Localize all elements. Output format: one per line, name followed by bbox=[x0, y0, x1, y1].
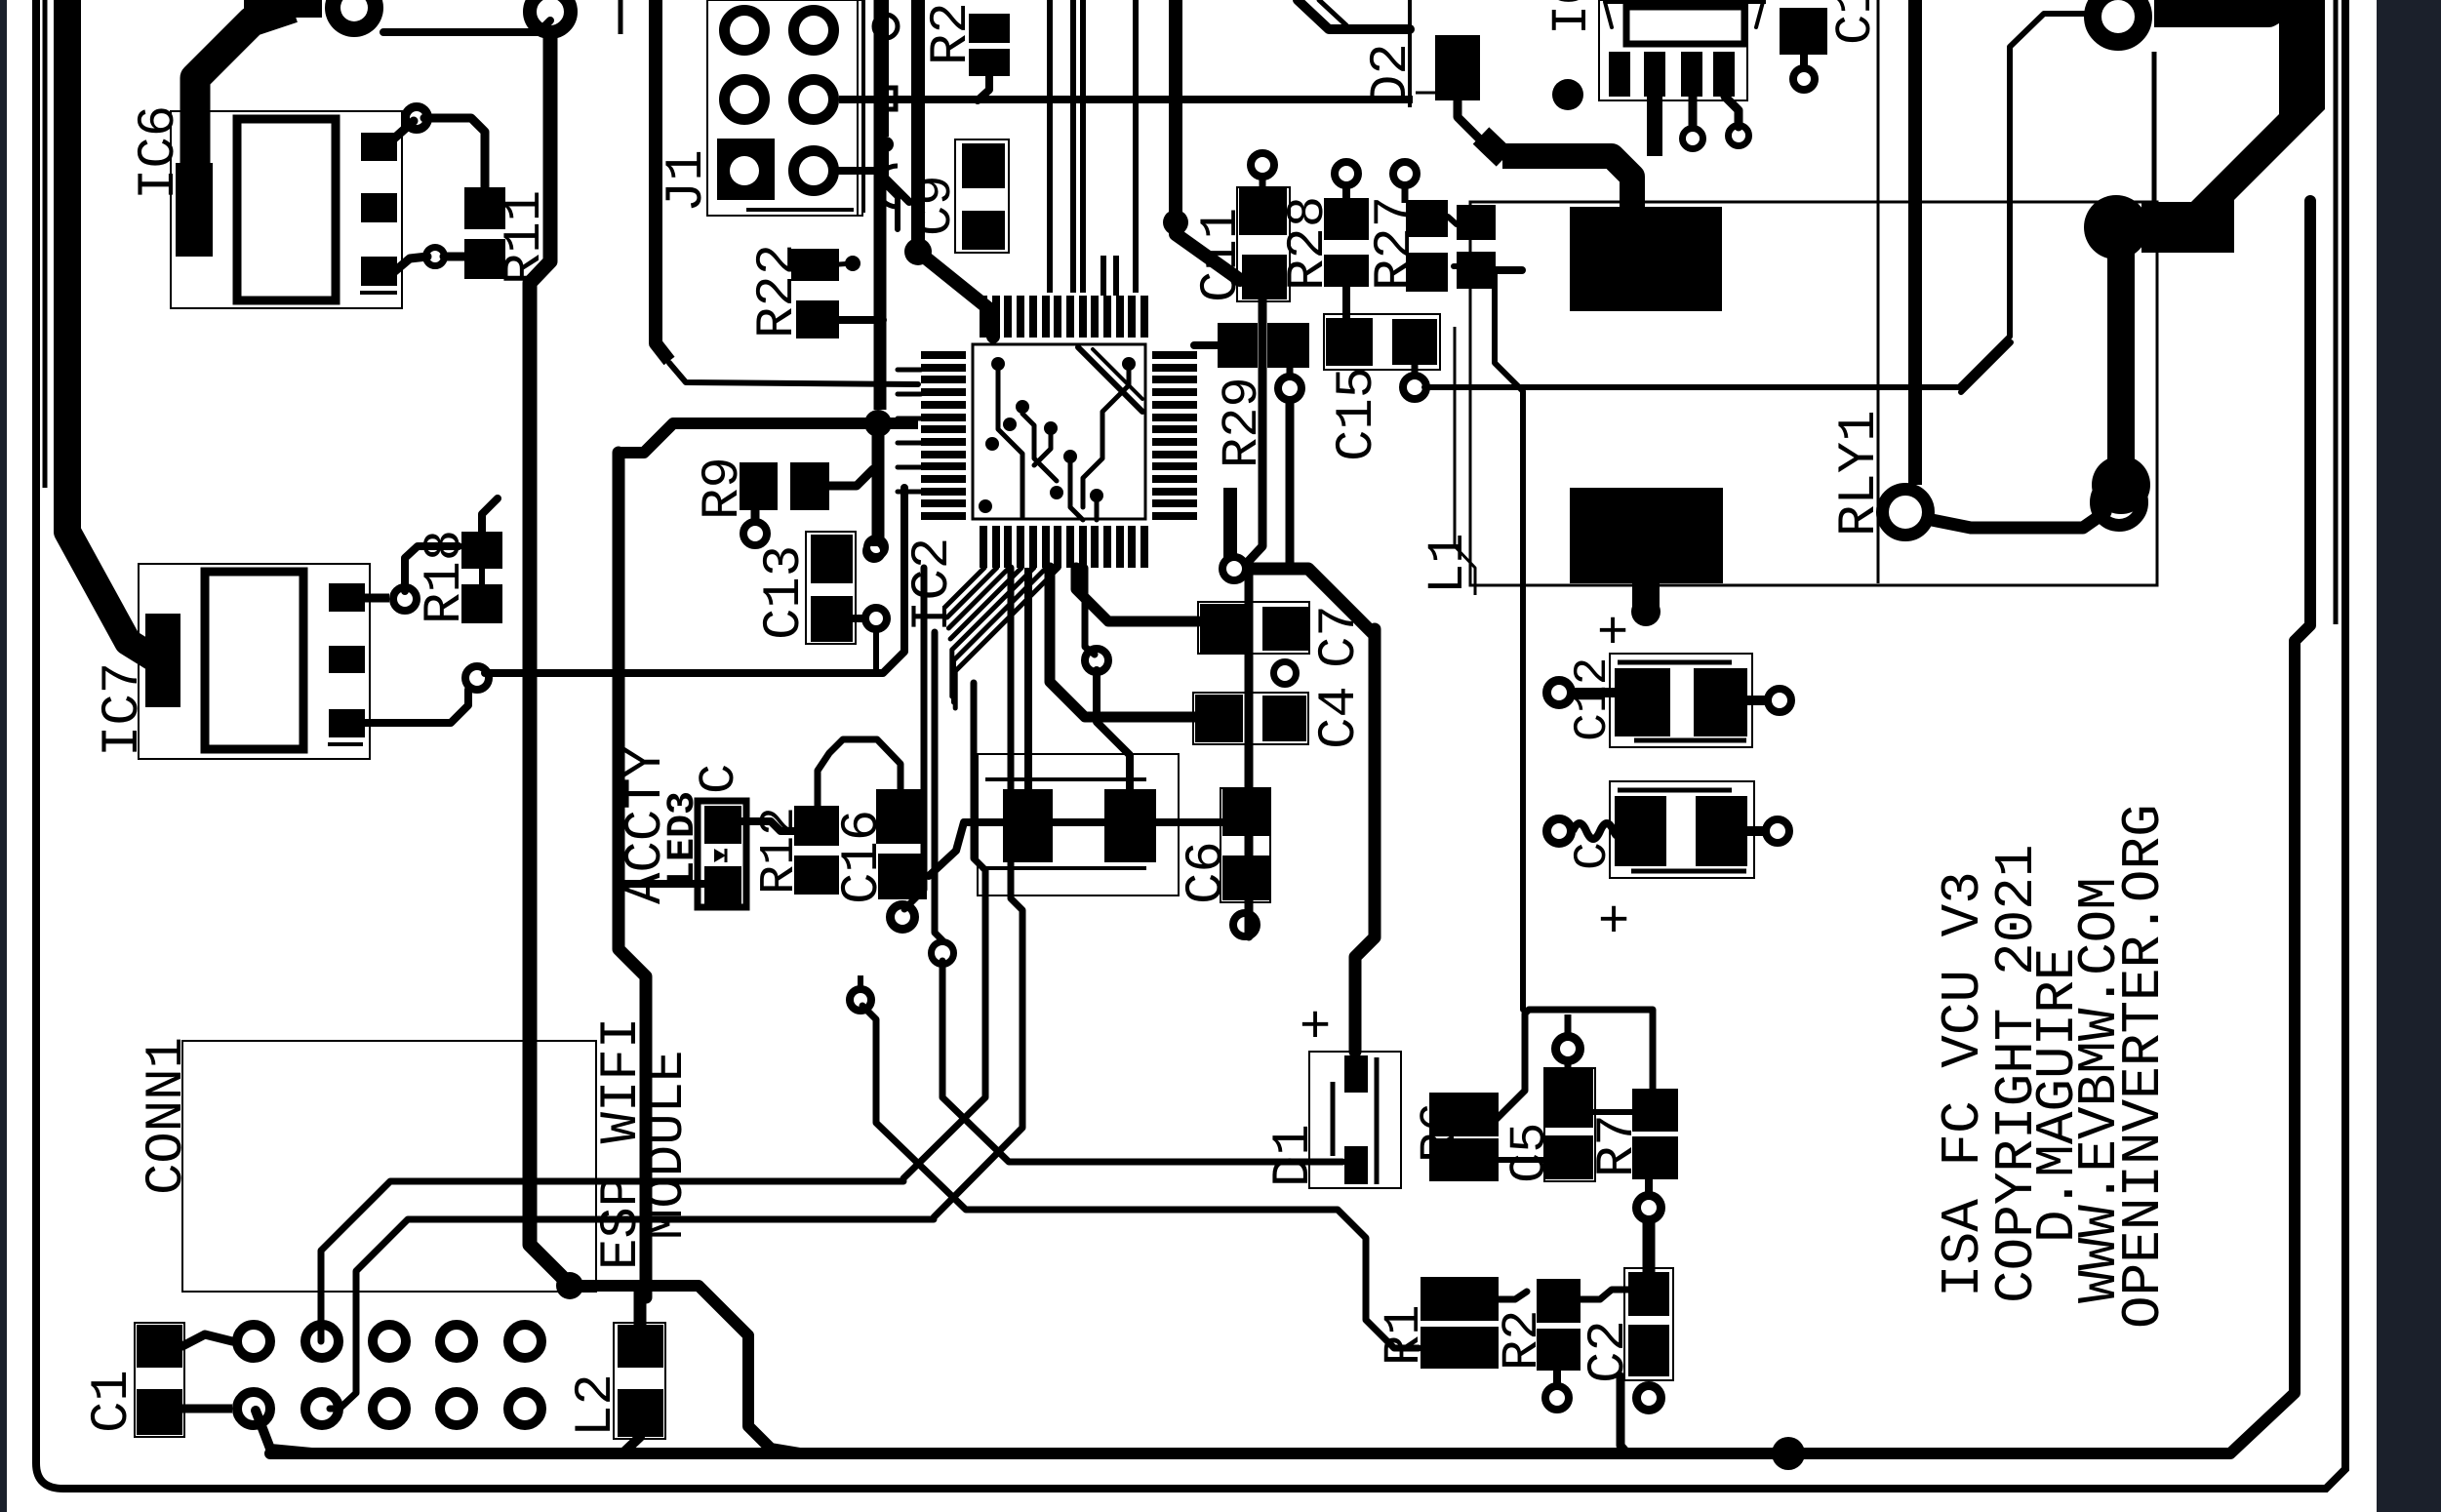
wire topleft-h bbox=[383, 20, 550, 32]
led LED3 outline bbox=[698, 801, 746, 907]
relay RLY1 pad-B bbox=[1570, 488, 1723, 583]
wire R29-via-down bbox=[1286, 396, 1295, 569]
wire RLY1-ring-link bbox=[1932, 512, 2105, 528]
capacitor C6 pad1 bbox=[1222, 789, 1269, 836]
resistor R2 pad1 bbox=[969, 14, 1010, 43]
ic IC6 pad2 bbox=[361, 193, 397, 222]
capacitor C12 pad1 bbox=[1615, 668, 1670, 736]
capacitor C13 pad2 bbox=[811, 596, 853, 642]
ic IC2 left-pin-bank bbox=[921, 351, 966, 359]
via R29-via bbox=[1278, 377, 1301, 400]
resistor R12 pad1 bbox=[794, 806, 839, 846]
wire via2-to-R11 bbox=[444, 253, 464, 261]
resistor R28 pad2 bbox=[1324, 255, 1369, 287]
capacitor C2 pad1 bbox=[1628, 1272, 1669, 1316]
capacitor C1 outline bbox=[135, 1323, 184, 1437]
wire C11-via-pad bbox=[1260, 173, 1266, 191]
resistor R11 pad2 bbox=[464, 239, 505, 279]
via C13-via1 bbox=[867, 538, 886, 557]
wire v1076 bbox=[1047, 0, 1053, 293]
wire IC5-pin2-down bbox=[1647, 97, 1662, 156]
wire v1110 bbox=[1080, 0, 1086, 293]
capacitor C9 pad1 bbox=[962, 143, 1005, 188]
wire C5-left-stub bbox=[1522, 1157, 1545, 1163]
wire C7-left-feed bbox=[1076, 568, 1198, 621]
via IC2-internal-4 bbox=[1044, 421, 1058, 435]
via top-right-ring bbox=[2093, 0, 2143, 42]
wire xnet-v3-d3 bbox=[903, 683, 985, 1178]
wire v908 bbox=[883, 0, 889, 137]
svg-text:IC: IC bbox=[1543, 0, 1601, 35]
ic IC5 pin1 bbox=[1609, 52, 1630, 97]
via C5-via bbox=[1556, 1037, 1581, 1061]
capacitor C4 pad2 bbox=[1262, 696, 1306, 741]
wire xnet-v947 bbox=[904, 568, 924, 909]
wire C14-down bbox=[1800, 55, 1808, 70]
via IC6-via2 bbox=[426, 248, 445, 266]
wire R28-via-feed bbox=[1342, 181, 1350, 198]
resistor R29 pad2 bbox=[1267, 323, 1309, 368]
wire R18-link bbox=[479, 569, 485, 584]
wire C11-feed bbox=[1176, 219, 1240, 280]
wire x1563-long bbox=[1454, 266, 1523, 1010]
capacitor C13 pad1 bbox=[811, 535, 853, 583]
wire C10-coil-lead bbox=[1573, 823, 1621, 839]
wire D2-trace bbox=[1298, 0, 1410, 29]
ic IC7 pad3 bbox=[329, 709, 365, 737]
wire C5-via-up bbox=[1565, 1015, 1572, 1034]
svg-text:C12: C12 bbox=[1567, 657, 1620, 741]
ic IC2 body-outline bbox=[973, 344, 1145, 519]
capacitor C15 pad1 bbox=[1326, 318, 1373, 366]
wire v1144 bbox=[1113, 256, 1119, 296]
svg-text:C15: C15 bbox=[1328, 367, 1387, 461]
via IC2-internal-7 bbox=[1050, 486, 1063, 499]
svg-text:MODULE: MODULE bbox=[638, 1051, 698, 1240]
diode D1 pad1 bbox=[1344, 1055, 1368, 1093]
via IC5-via3 bbox=[1683, 129, 1703, 149]
resistor R21 pad1 bbox=[1537, 1279, 1581, 1323]
svg-text:L2: L2 bbox=[567, 1373, 626, 1437]
wire R21-via-feed bbox=[1553, 1371, 1561, 1389]
capacitor C2 pad2 bbox=[1628, 1325, 1669, 1376]
ic IC7 body bbox=[205, 572, 303, 749]
wire R29-via-feed bbox=[1287, 368, 1294, 380]
wire R29-left bbox=[1194, 341, 1218, 349]
wire R27-via-pad bbox=[1402, 181, 1409, 203]
via big-top bbox=[530, 0, 571, 32]
wire L2-bottom-diag bbox=[622, 1437, 640, 1453]
wire xnet-v2-d2 bbox=[942, 961, 1342, 1162]
wire J1-row2-right bbox=[839, 96, 1413, 103]
via C2-via bbox=[1637, 1386, 1661, 1411]
svg-text:R12: R12 bbox=[752, 807, 808, 895]
via C14-via bbox=[1793, 68, 1815, 90]
resistor R30 pad1 bbox=[1457, 205, 1496, 240]
via IC2-internal-1 bbox=[991, 357, 1005, 371]
diode D1 outline bbox=[1309, 1052, 1401, 1188]
ic IC7 outline bbox=[139, 564, 370, 759]
diode D1 innerline-right bbox=[1375, 1057, 1380, 1184]
ic IC2 chamfer-line2 bbox=[1093, 349, 1142, 399]
via R27-via bbox=[1393, 162, 1417, 185]
wire C1-pad1-via bbox=[182, 1334, 232, 1346]
wire C15-via-feed bbox=[1412, 365, 1419, 379]
wire IC5-pin3-down bbox=[1689, 97, 1698, 131]
via RLY1-ring2 bbox=[2097, 480, 2142, 526]
wire R1-R21-link bbox=[1499, 1292, 1527, 1299]
svg-text:+: + bbox=[1290, 1009, 1349, 1040]
wire R18-pad1-up bbox=[482, 498, 498, 532]
capacitor C4 outline bbox=[1193, 693, 1308, 744]
connector CONN1 hole r1c2 bbox=[305, 1325, 339, 1358]
ic IC7 pad1 bbox=[329, 583, 365, 612]
node RLY1-stub-dot bbox=[1631, 597, 1661, 626]
resistor R11 pad1 bbox=[464, 187, 505, 229]
via C12-ring-left bbox=[1547, 681, 1572, 705]
relay RLY1 outline bbox=[1470, 202, 2157, 585]
capacitor C7 pad1 bbox=[1200, 604, 1248, 653]
via R28-via bbox=[1335, 162, 1358, 185]
ic IC7 tab-pad bbox=[145, 614, 180, 707]
via C12-ring-right bbox=[1768, 689, 1791, 712]
wire long-thin-y397 bbox=[1424, 14, 2087, 387]
wire C2-down bbox=[1621, 1376, 1627, 1453]
node IC5-dot bbox=[1552, 79, 1583, 110]
capacitor C16 pad2 bbox=[878, 854, 927, 899]
wire thin-x2205 bbox=[2152, 52, 2157, 202]
wire LED3-feed bbox=[619, 880, 704, 888]
wire RLY1-diag-up bbox=[1481, 136, 1504, 158]
wire ground-left-bar bbox=[67, 0, 156, 659]
svg-text:IC7: IC7 bbox=[94, 662, 153, 757]
wire thin-2061-diag bbox=[1961, 342, 2011, 392]
ic IC6 pad1 bbox=[361, 133, 397, 161]
via IC7-via1 bbox=[393, 587, 417, 611]
resistor R2 pad2 bbox=[969, 49, 1010, 76]
wire C11-down bbox=[1249, 299, 1262, 936]
ic IC5 body bbox=[1626, 7, 1744, 44]
node board-outline-right-inner bbox=[2334, 0, 2339, 624]
wire R27-link bbox=[1448, 217, 1457, 224]
wire horiz-y397 bbox=[669, 363, 918, 384]
svg-text:+: + bbox=[1587, 615, 1647, 646]
svg-text:L1: L1 bbox=[1420, 534, 1477, 594]
svg-text:C6: C6 bbox=[1178, 841, 1237, 904]
diode D1 pad2 bbox=[1344, 1146, 1368, 1184]
ic IC5 pin3 bbox=[1681, 52, 1702, 97]
capacitor C14 pad bbox=[1780, 8, 1827, 55]
via R21-via bbox=[1545, 1386, 1569, 1410]
capacitor C15 pad2 bbox=[1392, 319, 1437, 365]
wire R2-pad2-down bbox=[978, 76, 989, 100]
diode D2 line2 bbox=[1416, 92, 1463, 95]
wire conn1-fat-exit bbox=[256, 1411, 322, 1453]
wire D2-right bbox=[1458, 100, 1484, 143]
connector CONN1 hole r2c2 bbox=[305, 1392, 339, 1425]
wire v1131 bbox=[1100, 256, 1106, 296]
svg-text:R: R bbox=[243, 0, 292, 21]
capacitor C1 pad1 bbox=[137, 1325, 182, 1368]
wire C5-via-pad bbox=[1565, 1063, 1572, 1071]
via C16-via1 bbox=[891, 905, 915, 930]
svg-text:C4: C4 bbox=[1310, 686, 1370, 749]
resistor R22 pad1 bbox=[791, 249, 839, 281]
wire right-fat-x1409 bbox=[1355, 629, 1375, 1052]
resistor R1 pad1 bbox=[1421, 1277, 1499, 1321]
resistor top-left pads bbox=[244, 0, 322, 18]
via C6-via bbox=[1233, 913, 1257, 936]
resistor R1 pad2 bbox=[1421, 1327, 1499, 1369]
wire drop-570 bbox=[530, 37, 570, 1286]
wire C5-R7-link bbox=[1593, 1109, 1632, 1115]
svg-text:IC6: IC6 bbox=[130, 105, 189, 200]
wire v1100 bbox=[1070, 0, 1076, 293]
via C16-via2 bbox=[932, 942, 954, 965]
ic IC2 chamfer-diagonal bbox=[1078, 347, 1142, 412]
ic IC2 right-pin-bank bbox=[1152, 351, 1197, 359]
inductor L1 line bbox=[1455, 327, 1475, 595]
svg-text:R29: R29 bbox=[1214, 377, 1271, 468]
wire Y1-pad1-feed bbox=[1024, 568, 1032, 789]
wire R30-right bbox=[1496, 266, 1522, 274]
wire evia-up bbox=[858, 975, 863, 993]
capacitor C16 pad1 bbox=[876, 789, 925, 844]
wire IC2-fanout-left bbox=[898, 368, 921, 373]
svg-text:C2: C2 bbox=[1580, 1320, 1639, 1383]
node bottom-via bbox=[1772, 1437, 1805, 1470]
relay RLY1 inner-line bbox=[1877, 205, 1880, 583]
connector J1 hole2 bbox=[725, 11, 765, 51]
wire R7-up bbox=[1497, 1010, 1653, 1119]
resistor R7 pad1 bbox=[1632, 1089, 1678, 1132]
via C4-via bbox=[1274, 662, 1297, 685]
svg-text:C: C bbox=[1567, 842, 1620, 870]
svg-text:+: + bbox=[1588, 903, 1648, 935]
node big-junction-B bbox=[2092, 456, 2150, 514]
via IC2-internal-8 bbox=[1090, 489, 1103, 502]
svg-text:CONN1: CONN1 bbox=[138, 1037, 197, 1195]
capacitor C13 outline bbox=[806, 532, 856, 644]
inductor L2 pad1 bbox=[618, 1325, 663, 1368]
ic IC5 pin2 bbox=[1644, 52, 1665, 97]
wire mega-topright-polygon bbox=[2141, 0, 2325, 253]
crystal Y1 bottomline bbox=[985, 866, 1146, 870]
wire horiz-y434 bbox=[673, 418, 918, 429]
connector J1 pin1-square bbox=[717, 139, 775, 200]
wire ground-perimeter-bottom bbox=[270, 201, 2310, 1453]
capacitor C2 outline bbox=[1624, 1268, 1673, 1380]
relay RLY1 pad-A bbox=[1570, 207, 1722, 311]
crystal Y1 pad2 bbox=[1104, 789, 1156, 862]
resistor R9 pad1 bbox=[740, 462, 778, 510]
wire Y1-pad2-feed bbox=[1097, 670, 1130, 792]
capacitor C15 outline bbox=[1324, 314, 1440, 370]
via IC2-internal-2 bbox=[1016, 400, 1029, 414]
inductor L2 pad2 bbox=[618, 1389, 663, 1437]
diode D2 line1 bbox=[1408, 0, 1412, 107]
resistor R29 pad1 bbox=[1218, 323, 1258, 368]
wire R7-via-C2 bbox=[1643, 1217, 1656, 1272]
svg-text:R7: R7 bbox=[1588, 1114, 1648, 1177]
ic IC6 pin-line bbox=[360, 291, 397, 295]
svg-text:C: C bbox=[691, 764, 748, 794]
via IC2-internal-5 bbox=[985, 437, 999, 451]
wire top-stub-1 bbox=[619, 0, 623, 34]
crystal Y1 topline bbox=[985, 777, 1146, 781]
wire fat-x1963 bbox=[1908, 0, 1922, 485]
wire R11-pad1-up bbox=[424, 118, 485, 187]
via C10-ring-right bbox=[1766, 819, 1789, 843]
diode D2 pad bbox=[1435, 35, 1480, 100]
via IC2-internal-9 bbox=[979, 499, 992, 513]
resistor R6 pad2 bbox=[1429, 1138, 1499, 1181]
via v908-via bbox=[878, 137, 894, 152]
wire R22-pad2-right bbox=[839, 316, 883, 324]
node big-junction-A bbox=[2084, 195, 2148, 259]
wire C13-pad2-via bbox=[853, 615, 864, 622]
wire R9-pad2-right bbox=[829, 469, 873, 486]
wire xnet-v1-d1 bbox=[862, 1006, 1419, 1348]
ic IC2 top-pin-bank bbox=[980, 296, 987, 338]
svg-text:D1: D1 bbox=[1264, 1124, 1324, 1187]
wire C12-right-lead bbox=[1747, 696, 1772, 705]
svg-text:C16: C16 bbox=[833, 810, 893, 904]
resistor R6 pad1 bbox=[1429, 1093, 1499, 1136]
wire midvia-feed bbox=[1085, 568, 1095, 655]
wire IC2-fanout-diagonals bbox=[945, 568, 984, 607]
wire IC7-via-up bbox=[405, 546, 459, 591]
wire fat-x902 bbox=[874, 0, 887, 410]
wire horiz-y434-left bbox=[619, 423, 673, 453]
led LED3 pad1 bbox=[704, 806, 741, 844]
connector J1 hole6 bbox=[794, 151, 834, 191]
node junction-584 bbox=[556, 1272, 583, 1299]
svg-text:C1: C1 bbox=[83, 1370, 142, 1433]
wire L2-feed-top bbox=[634, 1292, 647, 1325]
via IC5-via4 bbox=[1729, 126, 1749, 146]
via C13-via2 bbox=[865, 608, 887, 629]
via mid-via bbox=[1085, 649, 1108, 672]
connector CONN1 hole r1c5 bbox=[508, 1325, 541, 1358]
via IC7-via2 bbox=[465, 666, 489, 690]
svg-text:R6: R6 bbox=[1412, 1102, 1469, 1163]
svg-text:IC2: IC2 bbox=[903, 537, 963, 632]
resistor R27 pad1 bbox=[1406, 200, 1448, 237]
wire C6-feed bbox=[929, 822, 1222, 876]
svg-text:R22: R22 bbox=[748, 244, 808, 338]
resistor R18 pad2 bbox=[461, 584, 502, 623]
svg-text:C13: C13 bbox=[755, 545, 815, 640]
via RLY1-ring1 bbox=[1883, 490, 1929, 536]
ic IC5 pin4 bbox=[1713, 52, 1735, 97]
capacitor C7 outline bbox=[1198, 602, 1309, 654]
wire C1-pad2-via bbox=[182, 1405, 232, 1413]
svg-text:D2: D2 bbox=[1362, 43, 1421, 106]
svg-text:R27: R27 bbox=[1366, 196, 1425, 291]
via IC2-internal-6 bbox=[1063, 450, 1077, 463]
ic IC6 outline bbox=[171, 111, 402, 308]
connector J1 inner-line2 bbox=[863, 0, 865, 213]
capacitor C12 pad2 bbox=[1694, 668, 1747, 736]
via R7-via bbox=[1637, 1196, 1661, 1220]
via R9-via bbox=[743, 522, 767, 545]
ic IC7 pin-line bbox=[328, 742, 363, 746]
wire y690-long bbox=[485, 488, 904, 673]
capacitor C11 outline bbox=[1237, 187, 1290, 301]
resistor R9 pad2 bbox=[790, 462, 829, 510]
wire R9-pad1-via bbox=[751, 510, 760, 523]
wire fat-941-diag bbox=[918, 252, 993, 337]
resistor R22 pad2 bbox=[796, 300, 839, 338]
wire C10-right-lead bbox=[1747, 826, 1770, 836]
svg-text:C5: C5 bbox=[1501, 1123, 1559, 1183]
node junction-902 bbox=[864, 410, 892, 437]
wire R22-wire bbox=[839, 263, 853, 264]
capacitor C10 pad2 bbox=[1696, 796, 1747, 866]
capacitor C4 pad1 bbox=[1195, 695, 1243, 742]
capacitor C5 pad1 bbox=[1545, 1069, 1593, 1128]
capacitor C11 pad2 bbox=[1242, 255, 1287, 299]
crystal Y1 outline bbox=[978, 754, 1179, 895]
via x902-via bbox=[865, 542, 883, 560]
svg-text:R28: R28 bbox=[1279, 196, 1339, 291]
connector CONN1 hole r2c4 bbox=[440, 1392, 473, 1425]
capacitor C1 pad2 bbox=[137, 1389, 182, 1435]
connector J1 inner-line bbox=[857, 0, 859, 216]
wire xnet-v4-d4 bbox=[934, 568, 1022, 1217]
via C11-via bbox=[1251, 153, 1274, 177]
connector CONN1 hole r1c3 bbox=[373, 1325, 406, 1358]
wire conn1-trace2 bbox=[330, 1219, 934, 1409]
resistor R28 pad1 bbox=[1324, 198, 1369, 240]
wire IC5-pin4-down bbox=[1725, 97, 1739, 127]
capacitor C12 bottomline bbox=[1634, 738, 1746, 743]
connector J1 hole3 bbox=[794, 11, 834, 51]
text C8-marks bbox=[874, 15, 898, 38]
wire R21-C2-link bbox=[1581, 1290, 1628, 1299]
wire topright-ring-feed bbox=[2154, 0, 2293, 14]
wire C7-via-link bbox=[1250, 569, 1375, 635]
capacitor C7 pad2 bbox=[1262, 607, 1308, 651]
wire IC7-pad3-via2 bbox=[365, 690, 468, 723]
wire IC7-pad1-via bbox=[365, 594, 389, 603]
ic IC2 bottom-pin-bank bbox=[980, 526, 987, 568]
via C10-ring-left bbox=[1547, 819, 1572, 844]
wire C4-left-feed bbox=[1050, 568, 1195, 717]
crystal Y1 pad1 bbox=[1003, 789, 1053, 862]
capacitor C10 topline bbox=[1618, 788, 1732, 793]
capacitor C11 pad1 bbox=[1239, 188, 1287, 235]
wire fat-x672 bbox=[656, 0, 669, 361]
wire fat-x1205 bbox=[1169, 0, 1182, 226]
resistor R18 pad1 bbox=[461, 532, 502, 569]
capacitor C9 outline bbox=[955, 139, 1009, 253]
wire IC6-fat-feed bbox=[195, 8, 293, 239]
wire IC6-pad3-via2 bbox=[390, 257, 427, 275]
capacitor C6 pad2 bbox=[1222, 855, 1269, 900]
capacitor C6 outline bbox=[1220, 788, 1270, 902]
node right-bezel bbox=[2377, 0, 2441, 1512]
capacitor C9 pad2 bbox=[962, 211, 1005, 250]
wire RLY1-padB-stub bbox=[1632, 583, 1660, 607]
svg-text:OPENINVERTER.ORG: OPENINVERTER.ORG bbox=[2112, 804, 2175, 1329]
wire RLY1-fat-feed bbox=[1502, 156, 1632, 207]
via R22-via bbox=[845, 256, 860, 271]
connector CONN1 hole r2c3 bbox=[373, 1392, 406, 1425]
via IC2-internal-10 bbox=[1122, 357, 1136, 371]
connector CONN1 hole r2c5 bbox=[508, 1392, 541, 1425]
